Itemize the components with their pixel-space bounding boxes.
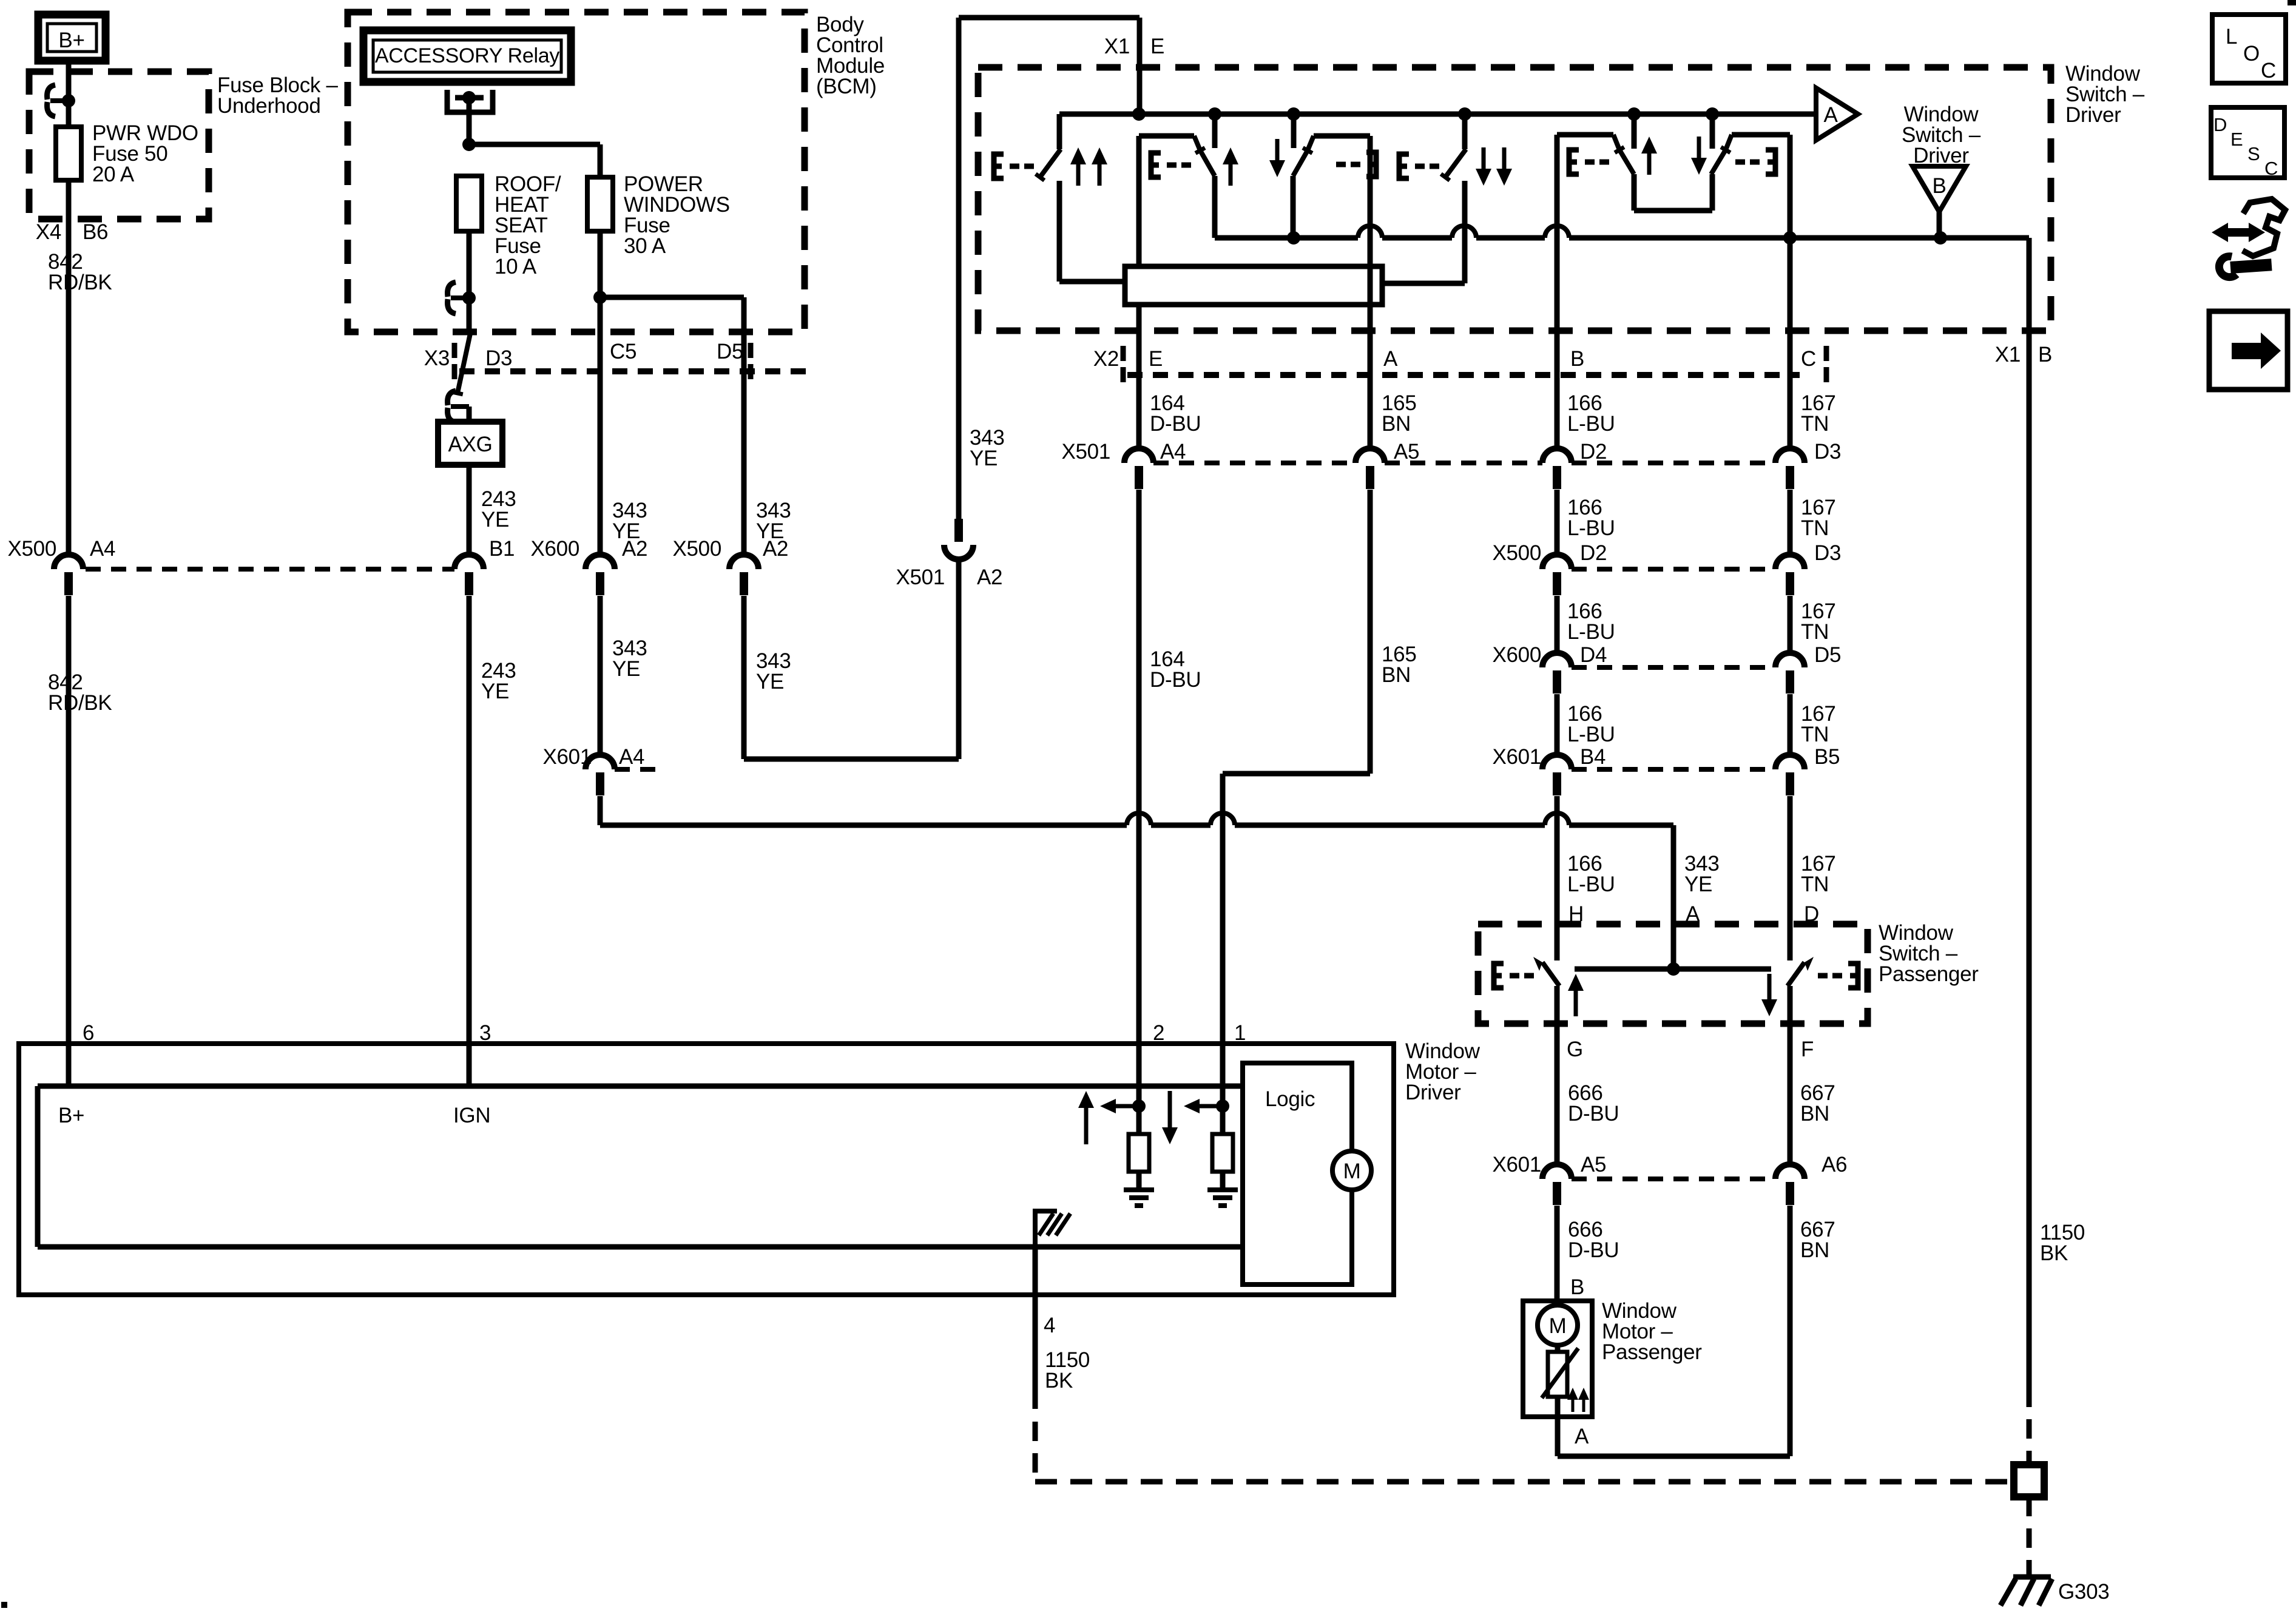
svg-text:B: B: [2038, 343, 2052, 366]
svg-text:D2: D2: [1580, 541, 1607, 565]
svg-text:A5: A5: [1394, 440, 1419, 464]
svg-text:Driver: Driver: [2065, 103, 2121, 127]
svg-text:C: C: [2261, 59, 2276, 83]
svg-text:L: L: [2226, 25, 2237, 49]
svg-text:TN: TN: [1801, 412, 1829, 436]
svg-text:D-BU: D-BU: [1568, 1238, 1619, 1262]
svg-text:A4: A4: [619, 745, 644, 769]
svg-text:YE: YE: [756, 519, 784, 543]
svg-text:M: M: [1343, 1160, 1361, 1183]
svg-text:X500: X500: [7, 537, 56, 561]
svg-text:30 A: 30 A: [624, 234, 666, 258]
svg-text:Passenger: Passenger: [1879, 962, 1979, 986]
svg-text:RD/BK: RD/BK: [48, 271, 112, 294]
svg-text:D3: D3: [485, 346, 512, 370]
svg-text:L-BU: L-BU: [1567, 723, 1615, 746]
svg-text:D-BU: D-BU: [1568, 1102, 1619, 1126]
svg-text:BN: BN: [1382, 663, 1411, 687]
svg-text:YE: YE: [612, 519, 640, 543]
svg-text:TN: TN: [1801, 873, 1829, 896]
svg-text:AXG: AXG: [448, 433, 492, 456]
svg-text:B+: B+: [58, 1104, 84, 1127]
svg-text:D4: D4: [1580, 643, 1607, 667]
svg-text:L-BU: L-BU: [1567, 873, 1615, 896]
svg-text:IGN: IGN: [453, 1104, 490, 1127]
svg-text:B: B: [1932, 174, 1946, 198]
svg-text:D2: D2: [1580, 440, 1607, 464]
svg-text:A4: A4: [1160, 440, 1186, 464]
svg-text:X4: X4: [36, 220, 61, 244]
svg-text:A2: A2: [977, 565, 1002, 589]
svg-text:B1: B1: [489, 537, 515, 561]
svg-text:E: E: [1149, 347, 1163, 371]
svg-text:D-BU: D-BU: [1150, 412, 1201, 436]
svg-text:X500: X500: [1492, 541, 1541, 565]
svg-text:D-BU: D-BU: [1150, 668, 1201, 692]
svg-text:BN: BN: [1800, 1102, 1829, 1126]
svg-text:A6: A6: [1822, 1153, 1847, 1176]
svg-text:YE: YE: [612, 657, 640, 681]
svg-text:A: A: [1575, 1425, 1589, 1448]
svg-text:20 A: 20 A: [92, 163, 135, 186]
svg-text:B+: B+: [58, 29, 84, 52]
svg-text:S: S: [2247, 143, 2260, 164]
svg-text:X501: X501: [896, 565, 945, 589]
svg-text:C5: C5: [610, 340, 636, 363]
svg-text:X501: X501: [1061, 440, 1110, 464]
svg-text:B: B: [1570, 347, 1584, 371]
svg-text:D3: D3: [1814, 440, 1841, 464]
svg-text:L-BU: L-BU: [1567, 516, 1615, 540]
svg-text:Driver: Driver: [1405, 1081, 1461, 1104]
svg-text:YE: YE: [1684, 873, 1712, 896]
svg-text:C: C: [1801, 347, 1816, 371]
svg-text:BK: BK: [1045, 1369, 1073, 1393]
svg-text:BN: BN: [1800, 1238, 1829, 1262]
svg-text:YE: YE: [481, 508, 509, 532]
svg-text:BK: BK: [2040, 1241, 2068, 1265]
svg-text:A5: A5: [1581, 1153, 1606, 1176]
svg-text:F: F: [1801, 1038, 1814, 1061]
svg-text:YE: YE: [756, 670, 784, 694]
svg-text:D: D: [2213, 114, 2227, 135]
svg-text:TN: TN: [1801, 516, 1829, 540]
svg-text:G303: G303: [2058, 1580, 2109, 1604]
svg-text:L-BU: L-BU: [1567, 412, 1615, 436]
svg-text:A: A: [1823, 103, 1838, 127]
svg-text:TN: TN: [1801, 723, 1829, 746]
svg-text:X3: X3: [424, 346, 450, 370]
svg-text:C: C: [2264, 158, 2278, 179]
svg-text:M: M: [1549, 1314, 1567, 1338]
svg-text:O: O: [2243, 42, 2260, 66]
svg-text:X600: X600: [1492, 643, 1541, 667]
svg-text:X1: X1: [1995, 343, 2021, 366]
svg-text:Passenger: Passenger: [1602, 1340, 1702, 1364]
svg-text:E: E: [2230, 129, 2243, 150]
svg-text:X601: X601: [1492, 745, 1541, 769]
svg-text:X600: X600: [530, 537, 579, 561]
svg-text:X500: X500: [672, 537, 721, 561]
svg-text:Driver: Driver: [1913, 144, 1969, 167]
svg-text:10 A: 10 A: [495, 255, 537, 279]
svg-text:D5: D5: [717, 340, 743, 363]
svg-text:1: 1: [1234, 1021, 1246, 1045]
svg-text:B6: B6: [83, 220, 108, 244]
svg-text:YE: YE: [481, 680, 509, 703]
svg-text:G: G: [1567, 1038, 1583, 1061]
svg-text:RD/BK: RD/BK: [48, 691, 112, 715]
svg-text:L-BU: L-BU: [1567, 620, 1615, 644]
svg-text:BN: BN: [1382, 412, 1411, 436]
svg-text:X1: X1: [1104, 35, 1130, 58]
svg-text:A4: A4: [90, 537, 115, 561]
svg-text:(BCM): (BCM): [816, 75, 877, 98]
svg-text:A: A: [1383, 347, 1398, 371]
svg-text:D3: D3: [1814, 541, 1841, 565]
svg-text:B5: B5: [1814, 745, 1840, 769]
svg-text:2: 2: [1153, 1021, 1164, 1045]
svg-text:E: E: [1150, 35, 1164, 58]
svg-text:TN: TN: [1801, 620, 1829, 644]
svg-text:ACCESSORY Relay: ACCESSORY Relay: [375, 44, 559, 67]
svg-text:B: B: [1570, 1275, 1584, 1299]
svg-text:B4: B4: [1580, 745, 1606, 769]
svg-text:Underhood: Underhood: [217, 94, 321, 118]
svg-text:4: 4: [1044, 1314, 1055, 1337]
svg-text:YE: YE: [970, 447, 998, 470]
svg-text:X2: X2: [1093, 347, 1119, 371]
svg-text:X601: X601: [1492, 1153, 1541, 1176]
svg-text:D5: D5: [1814, 643, 1841, 667]
svg-text:Logic: Logic: [1265, 1087, 1315, 1111]
